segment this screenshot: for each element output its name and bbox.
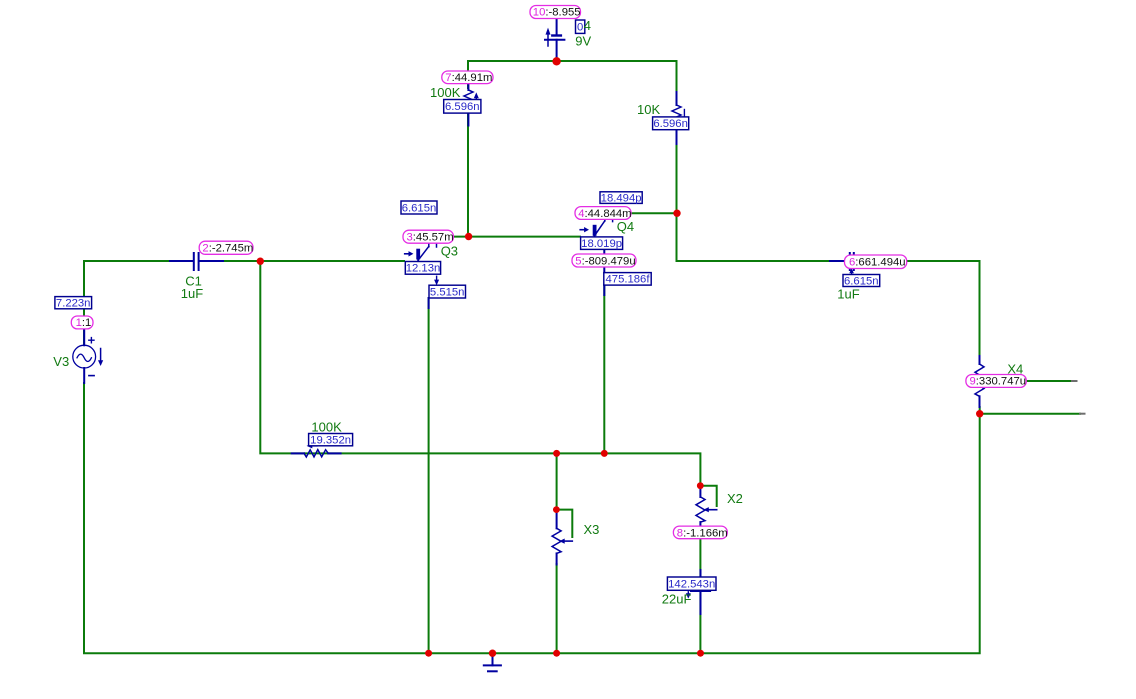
- svg-text:8:-1.166m: 8:-1.166m: [677, 527, 728, 539]
- value box 475.186f of Q4: [604, 273, 651, 286]
- potentiometer X2: [696, 489, 717, 526]
- svg-text:142.543n: 142.543n: [668, 579, 715, 591]
- wire: node3 row to Q4 gate: [429, 236, 580, 238]
- node number box 0 at battery: [576, 20, 585, 33]
- svg-text:X2: X2: [727, 491, 743, 506]
- wire: output cap right to X4 top: [906, 261, 980, 356]
- svg-text:1uF: 1uF: [837, 287, 859, 302]
- svg-text:22uF: 22uF: [662, 591, 692, 606]
- svg-text:2:-2.745m: 2:-2.745m: [202, 243, 253, 255]
- value box 6.615n of output 1uF: [843, 275, 880, 287]
- VALUE BOXES: [55, 20, 880, 590]
- svg-text:7.223n: 7.223n: [56, 298, 91, 310]
- value box 18.494p of Q4: [600, 192, 642, 204]
- node bubble 2:-2.745m: [199, 241, 253, 254]
- junction rail / Q3 column: [425, 650, 432, 657]
- svg-text:6.615n: 6.615n: [402, 202, 437, 214]
- wire: Q3 source column down to ground rail: [428, 298, 430, 653]
- node bubble 5:-809.479u: [572, 254, 636, 267]
- value box 7.223n of V3: [55, 297, 92, 309]
- capacitor 1uF (output): [830, 253, 873, 270]
- resistor 10K: [672, 92, 684, 144]
- wire: Q4 source column down to feedback row: [603, 285, 605, 453]
- junction node4/10K: [673, 210, 680, 217]
- capacitor 22uF: [686, 570, 710, 614]
- resistor 100K (feedback): [292, 443, 341, 457]
- svg-text:V3: V3: [53, 354, 69, 369]
- junction feedback row / X3: [553, 450, 560, 457]
- value box 19.352n of feedback 100K: [309, 434, 353, 446]
- ground: [484, 656, 501, 671]
- node bubble 3:45.57m: [403, 230, 453, 243]
- value box 12.13n of Q3: [405, 262, 440, 275]
- wire: node4 to 10K column, down and right to output cap: [631, 130, 830, 261]
- wire: C1 right to Q3 gate: [204, 260, 404, 262]
- svg-text:7:44.91m: 7:44.91m: [445, 72, 492, 84]
- svg-text:9:330.747u: 9:330.747u: [970, 376, 1027, 388]
- wire: node2 drop + feedback row + corner down to X2: [260, 261, 700, 482]
- svg-text:Q4: Q4: [617, 219, 634, 234]
- svg-text:10K: 10K: [637, 102, 660, 117]
- resistor 100K (left bias): [464, 84, 479, 126]
- svg-text:5:-809.479u: 5:-809.479u: [575, 255, 635, 267]
- junction node3: [465, 233, 472, 240]
- junction rail / X2 column: [697, 650, 704, 657]
- NODE BUBBLES: [71, 6, 1026, 539]
- value box 6.596n of 10K: [653, 117, 689, 130]
- potentiometer X4: [975, 356, 984, 407]
- svg-text:6:661.494u: 6:661.494u: [849, 257, 906, 269]
- wire: X2 column below bubble to rail: [699, 538, 701, 653]
- junction rail / ground: [489, 650, 496, 657]
- wire: top rail with 100K and 10K drops: [468, 61, 677, 105]
- wire: lower right stub from node 9 junction: [980, 413, 1080, 415]
- junction X2 top: [697, 482, 704, 489]
- svg-text:X3: X3: [584, 522, 600, 537]
- battery V4: [545, 19, 564, 62]
- node bubble 9:330.747u: [966, 375, 1026, 388]
- svg-text:475.186f: 475.186f: [606, 274, 651, 286]
- svg-text:4:44.844m: 4:44.844m: [578, 208, 631, 220]
- svg-text:1uF: 1uF: [181, 286, 203, 301]
- wire: X3 column: [556, 453, 558, 653]
- value box 18.019p of Q4: [581, 237, 623, 250]
- wire: X4 wiper output stub: [1026, 380, 1072, 382]
- value box 5.515n of Q3: [429, 285, 466, 298]
- svg-text:9V: 9V: [575, 33, 591, 48]
- wire: X3 wiper loop: [557, 510, 573, 537]
- junction X3 top: [553, 506, 560, 513]
- potentiometer X3: [552, 513, 572, 565]
- svg-text:Q3: Q3: [441, 244, 458, 259]
- node bubble 6:661.494u: [845, 255, 907, 269]
- wire: right drop + bottom rail + left column up to V3: [84, 383, 980, 653]
- svg-text:0: 0: [577, 22, 583, 34]
- GREEN LABELS: [53, 18, 1023, 607]
- svg-text:18.019p: 18.019p: [581, 238, 622, 250]
- current arrow of output 1uF: [849, 268, 854, 274]
- node bubble 8:-1.166m: [673, 526, 727, 539]
- svg-text:3:45.57m: 3:45.57m: [407, 231, 454, 243]
- JFET Q3: [405, 243, 439, 308]
- svg-text:100K: 100K: [311, 419, 342, 434]
- node bubble 7:44.91m: [442, 71, 493, 84]
- svg-text:10:-8.955: 10:-8.955: [533, 7, 581, 19]
- svg-text:100K: 100K: [430, 85, 461, 100]
- value box 6.596n of 100K: [444, 100, 481, 114]
- svg-text:18.494p: 18.494p: [601, 193, 642, 205]
- junction rail / X3 column: [553, 650, 560, 657]
- junction at battery/top rail: [552, 57, 560, 65]
- wire: 100K bottom to node 3 junction: [467, 113, 469, 237]
- junction feedback row / Q4 source: [601, 450, 608, 457]
- value box 6.615n (C1 current): [401, 201, 437, 214]
- wire: V3 top column and input row to C1: [84, 261, 170, 345]
- svg-text:5.515n: 5.515n: [430, 286, 465, 298]
- source V3: [73, 329, 103, 383]
- svg-text:X4: X4: [1007, 362, 1023, 377]
- svg-text:6.596n: 6.596n: [445, 101, 480, 113]
- JFET Q4: [580, 219, 612, 295]
- svg-text:6.615n: 6.615n: [844, 275, 879, 287]
- node bubble 4:44.844m: [575, 207, 631, 220]
- svg-text:4: 4: [584, 18, 591, 33]
- node bubble 10:-8.955: [530, 6, 581, 19]
- pin end tip (gray): [1072, 380, 1077, 382]
- junction node9 below X4: [976, 410, 983, 417]
- svg-text:6.596n: 6.596n: [653, 118, 688, 130]
- pin end tip (gray): [1080, 413, 1085, 415]
- junction node2 at C1: [257, 258, 264, 265]
- wire: X2 wiper loop: [700, 486, 716, 506]
- value box 142.543n of 22uF: [667, 577, 716, 590]
- svg-text:12.13n: 12.13n: [406, 263, 441, 275]
- capacitor C1: [170, 253, 223, 270]
- svg-text:1:1: 1:1: [76, 317, 92, 329]
- node bubble 1:1: [71, 316, 93, 329]
- svg-text:19.352n: 19.352n: [310, 435, 351, 447]
